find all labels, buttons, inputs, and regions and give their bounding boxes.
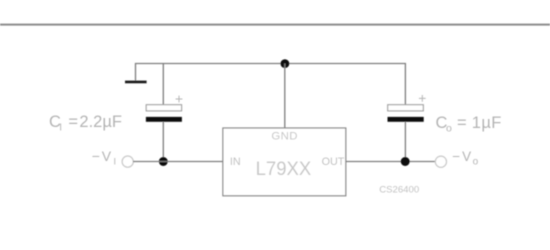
wire: OUT xyxy=(346,161,436,163)
svg-text:OUT: OUT xyxy=(322,156,345,168)
plus mark C1 xyxy=(176,96,183,103)
svg-text:I: I xyxy=(114,157,117,167)
wire: Ci bottom stub xyxy=(162,122,164,162)
svg-text:=: = xyxy=(457,114,467,132)
node: Ci/input junction xyxy=(159,157,168,166)
svg-text:CS26400: CS26400 xyxy=(379,185,419,196)
capacitor C2 plates xyxy=(388,105,424,122)
regulator U1 box xyxy=(223,128,346,196)
wire: IN xyxy=(133,161,223,163)
plus mark C2 xyxy=(419,95,426,102)
svg-text:2.2µF: 2.2µF xyxy=(79,113,122,131)
node: top junction xyxy=(281,59,290,68)
label Co = 1uF xyxy=(436,114,502,135)
label C1 = 2.2uF xyxy=(49,113,122,134)
label -Vi xyxy=(92,148,116,167)
svg-text:o: o xyxy=(446,123,452,135)
ground xyxy=(125,81,147,84)
svg-text:−V: −V xyxy=(452,149,473,164)
terminal circle input xyxy=(122,156,133,167)
svg-text:IN: IN xyxy=(230,156,241,168)
wire: Ci top stub xyxy=(162,64,164,105)
label -Vo xyxy=(452,149,478,168)
svg-text:=: = xyxy=(68,113,78,131)
node: Co/output junction xyxy=(401,157,410,166)
horizontal rule xyxy=(0,24,550,26)
svg-text:I: I xyxy=(59,123,62,134)
wire: top rail from ground corner to Co corner xyxy=(136,64,406,105)
svg-text:−V: −V xyxy=(92,148,113,164)
terminal circle output xyxy=(435,156,446,167)
svg-text:1µF: 1µF xyxy=(472,114,502,132)
svg-text:GND: GND xyxy=(271,131,298,143)
svg-text:L79XX: L79XX xyxy=(256,159,312,180)
wire: GND pin stub xyxy=(284,64,286,129)
wire: Co bottom stub xyxy=(404,122,406,162)
capacitor C1 plates xyxy=(146,105,182,122)
svg-text:o: o xyxy=(473,157,479,168)
